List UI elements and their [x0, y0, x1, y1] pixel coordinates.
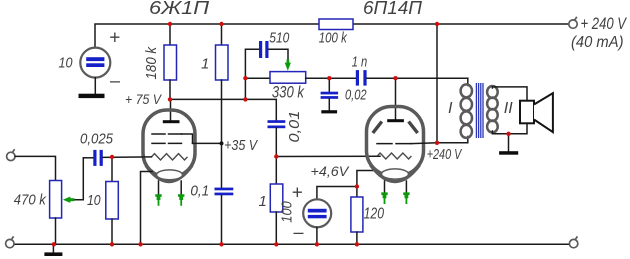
- wire primary bottom to +240 node: [437, 137, 468, 143]
- svg-text:1: 1: [259, 193, 267, 210]
- svg-text:+35 V: +35 V: [224, 137, 259, 154]
- resistor 120 cathode: [351, 187, 363, 245]
- svg-text:120: 120: [364, 206, 384, 223]
- svg-text:6П14П: 6П14П: [363, 0, 423, 18]
- label +75V: [125, 91, 162, 107]
- transformer primary winding I: [461, 84, 472, 137]
- label 180k rotated: [143, 46, 160, 80]
- junction dot screen V2: [435, 141, 439, 145]
- junction dot grid V1: [110, 155, 114, 159]
- svg-text:6Ж1П: 6Ж1П: [149, 0, 210, 18]
- wire branch up to tone network: [245, 49, 258, 99]
- svg-text:+240 V: +240 V: [427, 146, 463, 163]
- svg-text:–: –: [109, 71, 121, 91]
- capacitor 0.01 coupling: [268, 120, 286, 157]
- label 0.01 rotated: [286, 111, 303, 143]
- capacitor 1n: [329, 70, 468, 86]
- junction dot grid V2: [274, 154, 278, 158]
- potentiometer 330k: [245, 72, 329, 84]
- junction dots tone row: [327, 76, 398, 80]
- capacitor 0.1 screen bypass: [215, 188, 234, 245]
- junction dot secondary: [506, 132, 510, 136]
- wire grid V2 row: [276, 155, 380, 157]
- speaker: [520, 93, 553, 132]
- label 470k: [14, 191, 47, 208]
- terminal output bottom: [569, 236, 577, 247]
- svg-text:180 k: 180 k: [143, 46, 160, 80]
- label 1n: [352, 53, 368, 70]
- svg-text:0,1: 0,1: [190, 183, 209, 200]
- label +4.6V: [311, 163, 350, 179]
- wire rail to screen V2: [436, 24, 438, 143]
- resistor 1M screen: [216, 24, 229, 188]
- label +35V: [224, 137, 259, 154]
- wire anode lead V2: [395, 78, 397, 119]
- wire top rail right section: [353, 23, 569, 25]
- wire screen V2 to +240 node: [412, 142, 438, 145]
- label plus C100: [292, 183, 303, 204]
- anode bar V2: [387, 119, 404, 122]
- label +240V supply: [581, 15, 628, 33]
- svg-text:100: 100: [279, 201, 296, 223]
- grid zigzag V2: [377, 153, 411, 159]
- svg-text:+: +: [292, 183, 303, 204]
- arrow wiper 470k: [63, 158, 83, 203]
- grid zigzag V1: [152, 154, 188, 160]
- heater lead V1 left: [155, 181, 161, 206]
- label minus C100: [293, 222, 305, 242]
- arrow wiper 330k: [285, 59, 291, 70]
- svg-text:510: 510: [269, 29, 290, 46]
- svg-text:+ 240 V: + 240 V: [581, 15, 628, 33]
- terminal input top: [7, 149, 15, 160]
- wire cathode node row: [317, 187, 357, 200]
- svg-text:+4,6V: +4,6V: [311, 163, 350, 179]
- label 10: [59, 55, 74, 72]
- grids dashed V1: [152, 134, 193, 143]
- label 510: [269, 29, 290, 46]
- capacitor C1 10uF electrolytic: [80, 48, 110, 78]
- beam plates V2: [373, 122, 418, 134]
- svg-text:0,01: 0,01: [286, 111, 303, 143]
- ground below 0.02: [321, 110, 337, 113]
- junction dots bottom rail: [52, 242, 359, 246]
- label II: [504, 100, 513, 117]
- wire top rail left section: [95, 24, 319, 48]
- label plus C1: [109, 28, 120, 49]
- capacitor 510: [259, 41, 288, 60]
- terminal +240V output: [569, 17, 577, 28]
- wire cathode V2: [357, 171, 378, 187]
- wire bottom rail: [14, 243, 569, 245]
- label 0.025: [80, 131, 114, 148]
- tube V2 6P14P envelope: [367, 107, 424, 182]
- heater lead V1 right: [178, 181, 184, 206]
- wire secondary top to speaker: [492, 87, 527, 101]
- label 100k: [319, 29, 348, 46]
- label 100 rotated: [279, 201, 296, 223]
- junction dot cathode V2: [355, 184, 359, 188]
- label tube V1 6Zh1P: [149, 0, 210, 18]
- svg-text:I: I: [448, 100, 453, 117]
- label 120: [364, 206, 384, 223]
- svg-text:+ 75 V: + 75 V: [125, 91, 162, 107]
- label 0.02: [345, 87, 367, 104]
- label 1: [201, 56, 209, 73]
- potentiometer 470k: [50, 181, 62, 245]
- svg-text:1 n: 1 n: [352, 53, 368, 70]
- resistor 100k decoupling: [319, 19, 353, 30]
- wire cathode V1 to ground rail: [141, 172, 153, 245]
- wire secondary bottom to speaker: [492, 123, 527, 134]
- svg-text:II: II: [504, 100, 513, 117]
- label I: [448, 100, 453, 117]
- label 10: [87, 192, 101, 209]
- wire secondary ground stub: [508, 134, 510, 151]
- capacitor 0.02: [321, 78, 339, 110]
- wire C1 bottom: [94, 78, 96, 94]
- svg-text:10: 10: [87, 192, 101, 209]
- heater lead V2 left: [381, 181, 387, 204]
- junction dots top rail: [168, 22, 439, 26]
- svg-text:0,025: 0,025: [80, 131, 114, 148]
- resistor 180k: [164, 24, 177, 99]
- svg-text:0,02: 0,02: [345, 87, 367, 104]
- label 0.1: [190, 183, 209, 200]
- svg-text:470 k: 470 k: [14, 191, 47, 208]
- svg-text:–: –: [293, 222, 305, 242]
- resistor 1 grid leak V2: [270, 157, 283, 245]
- resistor 10 grid leak: [106, 157, 119, 244]
- terminal input bottom: [6, 236, 14, 247]
- capacitor 0.025 coupling: [83, 150, 151, 166]
- wire anode lead V1: [170, 99, 172, 120]
- label minus C1: [109, 71, 121, 91]
- label 330k: [272, 84, 305, 102]
- label (40 mA): [571, 34, 624, 51]
- capacitor 100uF cathode bypass: [303, 199, 331, 244]
- wire +75V anode row: [170, 99, 276, 120]
- svg-text:1: 1: [201, 56, 209, 73]
- svg-text:10: 10: [59, 55, 74, 72]
- grid dashed V2: [377, 143, 412, 145]
- ground below C1: [79, 94, 105, 98]
- junction dots anode row: [168, 76, 248, 102]
- label +240V anode: [427, 146, 463, 163]
- svg-text:(40 mA): (40 mA): [571, 34, 624, 51]
- tube V1 6Zh1P envelope: [143, 110, 195, 182]
- svg-text:330 k: 330 k: [272, 84, 305, 102]
- transformer core: [476, 83, 483, 138]
- label tube V2 6P14P: [363, 0, 423, 18]
- transformer secondary winding II: [487, 86, 498, 133]
- anode bar V1: [163, 120, 180, 123]
- svg-text:+: +: [109, 28, 120, 49]
- svg-text:100 k: 100 k: [319, 29, 348, 46]
- ground below 470k: [44, 244, 62, 256]
- heater lead V2 right: [403, 181, 409, 204]
- label 1: [259, 193, 267, 210]
- wire primary top stub: [467, 78, 469, 85]
- ground below secondary: [499, 151, 518, 155]
- wire screen V1 to +35V node: [193, 141, 224, 145]
- wire input to pot: [15, 156, 55, 180]
